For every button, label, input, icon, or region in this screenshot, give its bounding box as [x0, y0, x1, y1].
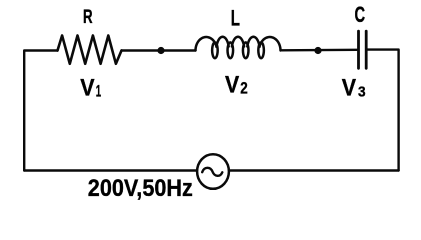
svg-text:V: V: [80, 75, 94, 102]
svg-text:2: 2: [240, 78, 248, 97]
svg-text:V: V: [225, 71, 239, 98]
svg-text:3: 3: [358, 83, 366, 100]
svg-text:1: 1: [96, 82, 101, 100]
svg-text:200V,50Hz: 200V,50Hz: [88, 175, 193, 202]
svg-text:L: L: [231, 5, 240, 30]
svg-text:V: V: [342, 74, 356, 101]
svg-text:R: R: [83, 6, 93, 28]
svg-text:C: C: [355, 2, 366, 27]
